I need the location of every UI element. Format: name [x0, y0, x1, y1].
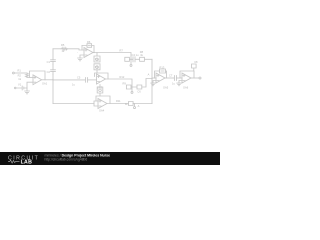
wire OA5 plus ground	[153, 81, 156, 84]
wire feedback OA5	[155, 71, 160, 78]
svg-text:R12: R12	[120, 75, 125, 79]
wire OA2 output	[93, 53, 131, 60]
capacitor C7 series	[174, 76, 176, 81]
svg-text:R5: R5	[61, 43, 65, 47]
svg-text:V1: V1	[18, 83, 22, 87]
wire OA6 plus ground	[179, 81, 182, 84]
junction bus	[52, 79, 53, 80]
svg-text:V3: V3	[95, 65, 99, 69]
wire chain to M feedback	[96, 70, 98, 73]
capacitor C1 on bus	[51, 60, 56, 64]
component X1	[94, 56, 100, 62]
ground G1	[25, 88, 30, 94]
svg-text:OA3: OA3	[97, 86, 103, 90]
svg-text:-: -	[77, 52, 78, 55]
op-amp OA1	[33, 75, 42, 85]
op-amp OA5	[156, 73, 165, 83]
wire OA2 plus to ground	[80, 55, 84, 58]
svg-text:C1: C1	[47, 60, 51, 64]
wire OA4 input stubs	[94, 101, 98, 106]
svg-text:C2: C2	[47, 70, 51, 74]
schematic canvas	[0, 0, 220, 165]
wire to OA2 minus	[67, 49, 84, 50]
logo waveform	[8, 160, 20, 163]
svg-text:http://circuitlab.com/c/vg48b6: http://circuitlab.com/c/vg48b6	[45, 157, 88, 161]
op-amp OA6	[182, 73, 191, 83]
svg-text:C7: C7	[169, 73, 173, 77]
wire feedback OA4	[96, 96, 110, 104]
svg-text:C4 1u: C4 1u	[132, 53, 139, 57]
svg-text:1k: 1k	[18, 77, 21, 81]
node terminal ND	[133, 104, 134, 107]
capacitor C2 on bus	[51, 70, 56, 74]
node terminal NB	[130, 59, 132, 64]
wire C7 to OA6	[176, 77, 182, 79]
svg-text:C6: C6	[137, 90, 141, 94]
component X2	[94, 64, 100, 70]
svg-text:OA4: OA4	[99, 108, 105, 112]
wire OA4 output	[107, 103, 129, 105]
resistor R7 stub left	[125, 57, 131, 61]
resistor R9 stub left	[126, 85, 132, 89]
node OUT terminal	[199, 77, 201, 79]
svg-text:LAB: LAB	[21, 159, 33, 165]
node terminal NC	[131, 87, 133, 91]
wire bus bottom	[53, 103, 94, 105]
wire feedback OA5 right	[166, 71, 167, 78]
op-amp OA2	[84, 48, 93, 58]
resistor R5	[61, 48, 68, 50]
resistor R11 series	[129, 102, 134, 106]
ground G5	[177, 83, 181, 86]
svg-text:R6: R6	[87, 40, 91, 44]
wire OA3 output	[106, 79, 133, 87]
wire OA6 output	[191, 77, 199, 79]
wire feedback OA1	[30, 71, 46, 80]
svg-text:C5: C5	[77, 75, 81, 79]
wire plus input OA1	[27, 82, 33, 88]
svg-text:1k: 1k	[125, 102, 128, 106]
wire feedback OA3	[95, 73, 109, 79]
resistor R1 vertical	[26, 73, 29, 77]
svg-text:A: A	[148, 73, 150, 77]
terminal V1 left	[14, 87, 16, 89]
wire stage2 input	[53, 48, 61, 50]
svg-text:OA6: OA6	[183, 86, 189, 90]
wire input top	[14, 72, 27, 74]
component X3 above OA4	[97, 85, 103, 97]
wire C5 to OA3 plus	[88, 79, 97, 81]
svg-text:R7: R7	[120, 48, 124, 52]
svg-text:OA1: OA1	[42, 82, 48, 86]
wire hook to OA5 node	[142, 79, 152, 88]
wire OA1 output	[42, 79, 53, 81]
source V1	[16, 86, 27, 90]
svg-text:A: A	[138, 104, 140, 108]
ground G2	[78, 58, 83, 61]
svg-text:1u: 1u	[172, 81, 175, 85]
op-amp OA4	[98, 99, 107, 109]
component C8 above feedback	[192, 64, 197, 71]
op-amp OA3	[97, 74, 106, 84]
wire OA5 output	[165, 77, 174, 79]
svg-text:OA5: OA5	[163, 86, 169, 90]
wire bus vertical	[52, 49, 54, 104]
wire right bus vertical	[151, 59, 153, 103]
junction OA5 node	[151, 78, 152, 79]
wire chain OA2 to OA3	[96, 53, 98, 57]
svg-text:C8: C8	[194, 60, 198, 64]
labels	[18, 40, 199, 112]
wire mid to OA3	[53, 79, 85, 81]
resistor R6 feedback	[82, 44, 92, 48]
svg-text:V2: V2	[95, 57, 99, 61]
wire to right bus low	[133, 103, 152, 105]
wire feedback OA2	[81, 46, 83, 51]
wire to inverting input	[27, 76, 33, 78]
resistor R8b series	[140, 57, 145, 61]
wire feedback OA2 right	[92, 46, 94, 53]
svg-text:R11: R11	[116, 99, 121, 103]
footer bar	[0, 152, 220, 165]
node IN terminal	[13, 72, 15, 74]
svg-text:R13: R13	[160, 65, 165, 69]
ground G4	[151, 83, 155, 86]
capacitor C4 series	[131, 57, 140, 62]
wire feedback OA6	[180, 71, 194, 78]
svg-text:R9: R9	[122, 81, 126, 85]
wire to right bus	[144, 58, 152, 60]
junction OA2 out	[93, 52, 94, 53]
svg-text:1u: 1u	[72, 82, 75, 86]
capacitor C5 series mid	[86, 78, 88, 83]
resistor R12 feedback	[160, 69, 166, 73]
resistor R10b series	[132, 85, 142, 89]
svg-text:R1: R1	[18, 68, 22, 72]
wire OA5 minus stub	[152, 77, 156, 79]
